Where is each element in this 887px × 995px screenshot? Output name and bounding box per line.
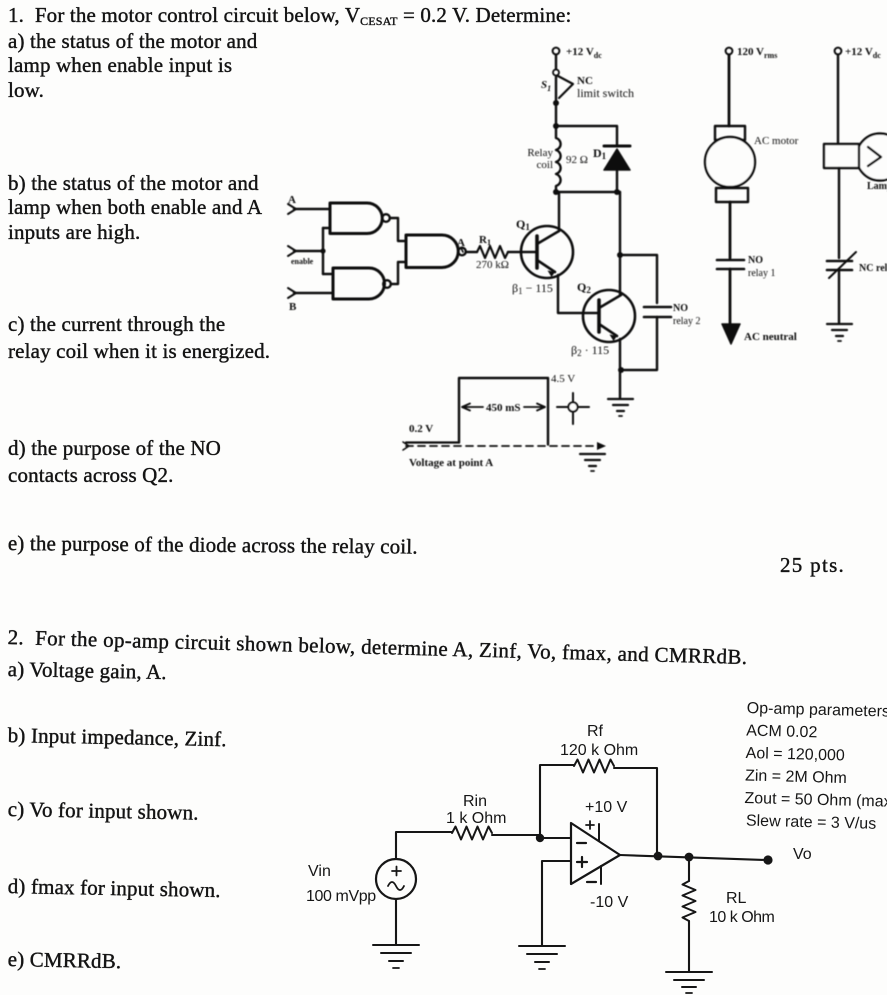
op-amp U1 (571, 821, 620, 884)
wire motor to NO contact (729, 202, 732, 258)
problem 1 heading (8, 3, 571, 33)
svg-text:+10 V: +10 V (585, 799, 628, 816)
NC relay contact (827, 252, 856, 278)
AC motor (705, 126, 755, 202)
part d (8, 435, 221, 488)
junction output/RL (685, 853, 694, 862)
svg-text:Slew rate = 3 V/us: Slew rate = 3 V/us (746, 813, 877, 833)
svg-text:Vin: Vin (308, 863, 331, 880)
wire RL bottom (688, 921, 690, 971)
arrow under node A label (461, 248, 463, 252)
junction inverting node (536, 834, 544, 842)
junction relay bottom (553, 189, 559, 195)
bubble G3 (458, 248, 466, 256)
wire Rf left leg (540, 765, 574, 838)
ground below Q2 (608, 399, 633, 416)
svg-text:relay 2: relay 2 (673, 316, 701, 327)
junction Q2 emitter / NO branch (618, 367, 624, 373)
wire Rin to junction (492, 834, 540, 836)
waveform pulse (459, 378, 548, 445)
svg-text:-10 V: -10 V (590, 894, 629, 911)
svg-text:Rin: Rin (463, 793, 487, 810)
svg-text:ACM 0.02: ACM 0.02 (746, 722, 818, 741)
part b (8, 171, 262, 244)
svg-text:Op-amp parameters: Op-amp parameters (747, 700, 887, 721)
svg-text:AC motor: AC motor (754, 135, 799, 147)
svg-text:Q1: Q1 (516, 217, 530, 232)
wire Q2 emitter down to ground (619, 339, 621, 398)
NO contact plates (across Q2) (644, 306, 671, 309)
NO relay 1 contact (717, 260, 744, 269)
ground near waveform (580, 454, 605, 471)
transistor Q1 (521, 226, 573, 278)
wire RL top (688, 857, 690, 881)
junction output/Rf (654, 852, 663, 861)
svg-text:Rf: Rf (587, 723, 604, 740)
wire G1 output to G3 (390, 218, 406, 241)
transistor Q2 (583, 290, 635, 342)
svg-text:+12 Vdc: +12 Vdc (566, 46, 602, 60)
relay coil (inductor) (556, 126, 561, 192)
wire G3 output to R1 (466, 251, 477, 253)
junction below switch (553, 100, 559, 106)
svg-text:RL: RL (726, 890, 747, 907)
svg-text:270 kΩ: 270 kΩ (476, 259, 509, 271)
svg-text:AC neutral: AC neutral (744, 331, 797, 343)
wire NC contact to ground (838, 270, 840, 323)
op-amp parameters text (744, 700, 887, 833)
wire enable (294, 250, 323, 252)
resistor RL (683, 881, 696, 921)
switch S1 NC limit switch (553, 70, 573, 99)
svg-text:+12 Vdc: +12 Vdc (845, 46, 881, 60)
dimension arrow 450 mS left (462, 404, 483, 411)
svg-text:R1: R1 (479, 234, 491, 247)
wire Q1 emitter to Q2 base (558, 275, 598, 313)
AC neutral arrow (722, 324, 740, 344)
junction diode bottom (614, 189, 620, 195)
svg-text:limit switch: limit switch (577, 86, 634, 100)
diode D1 (604, 146, 630, 192)
terminal Vo (763, 855, 772, 864)
wire junction to op-amp (540, 837, 570, 839)
enable bus vertical (322, 228, 324, 274)
svg-text:450 mS: 450 mS (486, 402, 521, 414)
waveform dashed baseline (406, 445, 598, 447)
svg-text:Voltage at point A: Voltage at point A (409, 457, 493, 469)
svg-text:120 Vrms: 120 Vrms (737, 46, 777, 60)
svg-text:0.2 V: 0.2 V (409, 423, 433, 435)
svg-text:NO: NO (673, 303, 688, 314)
svg-text:NC rel: NC rel (859, 263, 887, 274)
wire non-inverting input (542, 861, 571, 945)
svg-text:10 k Ohm: 10 k Ohm (709, 909, 775, 926)
svg-text:1 k Ohm: 1 k Ohm (446, 810, 506, 827)
wire R1 to Q1 base (508, 251, 536, 253)
wire Vin to Rin (396, 832, 452, 859)
svg-text:Aol = 120,000: Aol = 120,000 (745, 745, 845, 765)
junction relay top (553, 123, 559, 129)
wire lamp to NC contact (838, 168, 840, 258)
wire diode branch top (556, 126, 617, 146)
wire NO contact branch top (620, 255, 657, 303)
baseline left tick (403, 442, 409, 450)
svg-text:Lamp: Lamp (867, 181, 887, 192)
svg-text:coil: coil (537, 159, 554, 171)
ground non-inverting (519, 946, 565, 969)
svg-text:Vo: Vo (793, 846, 812, 863)
resistor R1 (477, 246, 508, 258)
wire bus to G1 lower input (323, 227, 330, 229)
svg-text:Zout = 50 Ohm (max: Zout = 50 Ohm (max (744, 790, 887, 811)
dimension arrow 450 mS right (524, 404, 545, 411)
svg-text:relay 1: relay 1 (748, 268, 776, 279)
svg-text:Zin = 2M Ohm: Zin = 2M Ohm (745, 767, 847, 787)
wire Rf right leg (614, 768, 657, 855)
wire op-amp output (620, 855, 766, 860)
part e (8, 531, 418, 559)
bubble G1 (382, 214, 390, 222)
svg-text:β2 · 115: β2 · 115 (571, 343, 609, 358)
svg-text:B: B (289, 301, 297, 313)
svg-text:92 Ω: 92 Ω (566, 154, 588, 166)
svg-text:Q2: Q2 (577, 280, 591, 295)
wire input A (294, 208, 330, 210)
input arrow B (288, 288, 296, 298)
junction enable/bus (320, 248, 325, 253)
part c (8, 311, 270, 364)
wire relay bottom to diode bottom (556, 191, 620, 193)
wire NO contact branch bottom (621, 317, 657, 370)
svg-text:Relay: Relay (527, 147, 553, 159)
wire Q1 collector up (558, 192, 560, 231)
wire terminal to switch (555, 55, 557, 69)
ground lamp branch (827, 324, 852, 341)
problem 2 heading (7, 625, 747, 669)
junction Q2 collector / NO branch (617, 252, 623, 258)
waveform 0.2V level line (406, 441, 459, 443)
terminal +12Vdc lamp branch (835, 48, 842, 55)
svg-text:NO: NO (748, 255, 763, 266)
input arrow enable (288, 246, 296, 256)
part a (8, 29, 257, 102)
baseline arrowhead (597, 442, 606, 450)
NAND gate G1 (top) (330, 203, 382, 234)
wire switch to junction (555, 77, 557, 126)
NAND gate G3 (output) (406, 235, 458, 268)
bubble G2 (383, 280, 391, 288)
wire NO contact to arrow (729, 269, 732, 326)
wire G2 output to G3 (391, 262, 406, 284)
ground Vin (373, 945, 419, 968)
lamp (824, 134, 887, 181)
wire to lamp (837, 55, 839, 144)
wire Q2 collector up (619, 192, 621, 295)
wire input B (294, 292, 333, 294)
svg-text:D1: D1 (593, 146, 607, 161)
wire bus to G2 upper input (323, 273, 333, 275)
NAND gate G2 (bottom) (333, 268, 385, 299)
resistor Rf (574, 760, 614, 773)
source Vin (376, 859, 416, 899)
svg-text:4.5 V: 4.5 V (551, 373, 575, 385)
svg-text:100 mVpp: 100 mVpp (306, 888, 376, 905)
resistor Rin (452, 827, 492, 840)
points (780, 553, 845, 577)
svg-text:S1: S1 (541, 79, 551, 93)
wire to motor (728, 55, 731, 126)
ground RL (666, 972, 712, 993)
terminal 120 Vrms (726, 48, 733, 55)
svg-text:120 k Ohm: 120 k Ohm (560, 742, 638, 759)
terminal +12Vdc relay branch (553, 48, 560, 55)
wire Vin source to ground (395, 899, 397, 944)
input arrow A (288, 204, 296, 214)
svg-text:enable: enable (291, 257, 314, 266)
crosshair symbol (557, 393, 589, 424)
svg-text:β1 − 115: β1 − 115 (512, 281, 553, 296)
